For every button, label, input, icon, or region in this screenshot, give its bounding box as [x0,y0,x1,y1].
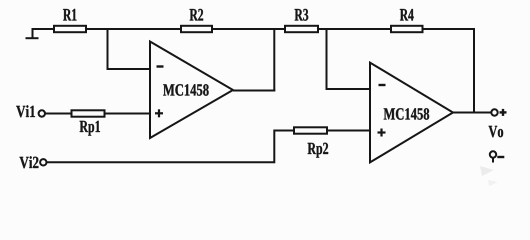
resistor R3 [285,9,318,32]
terminal Vi2 [20,156,47,168]
wire R1 to R2 [86,28,181,30]
wire Vi2 riser to Rp2 [274,131,294,164]
scan smudge artifacts [480,166,498,186]
node B: U1 output feedback riser [273,29,275,91]
wire R2 to R3 [212,28,285,30]
wire to U2 inverting input [326,88,371,90]
resistor R1 [54,9,86,32]
resistor Rp2 [294,127,328,157]
wire to U1 inverting input [107,68,151,70]
terminal Vo minus [490,151,505,162]
resistor R2 [181,9,212,32]
wire Vi2 run [47,161,275,163]
wire feedback drop to output node [473,28,475,113]
resistor Rp1 [72,110,105,135]
label Vo [489,126,504,137]
terminal Vo plus [491,109,506,116]
op-amp U2 MC1458 [370,63,453,163]
terminal Vi1 [16,105,45,117]
wire Rp2 to U2 + input [327,130,370,132]
wire ground to R1 [32,28,55,30]
ground [26,28,39,39]
node A tap to U1 inverting input [107,29,109,70]
resistor R4 [391,9,423,32]
wire Rp1 to U1 + input [105,113,151,115]
node C tap to U2 inverting input [326,29,328,90]
wire R4 to right corner [423,28,475,30]
wire Vi1 to Rp1 [45,113,72,115]
wire U2 output [453,112,491,114]
wire U1 output to node B [233,90,275,92]
op-amp U1 MC1458 [150,42,233,139]
wire R3 to R4 [318,28,391,30]
